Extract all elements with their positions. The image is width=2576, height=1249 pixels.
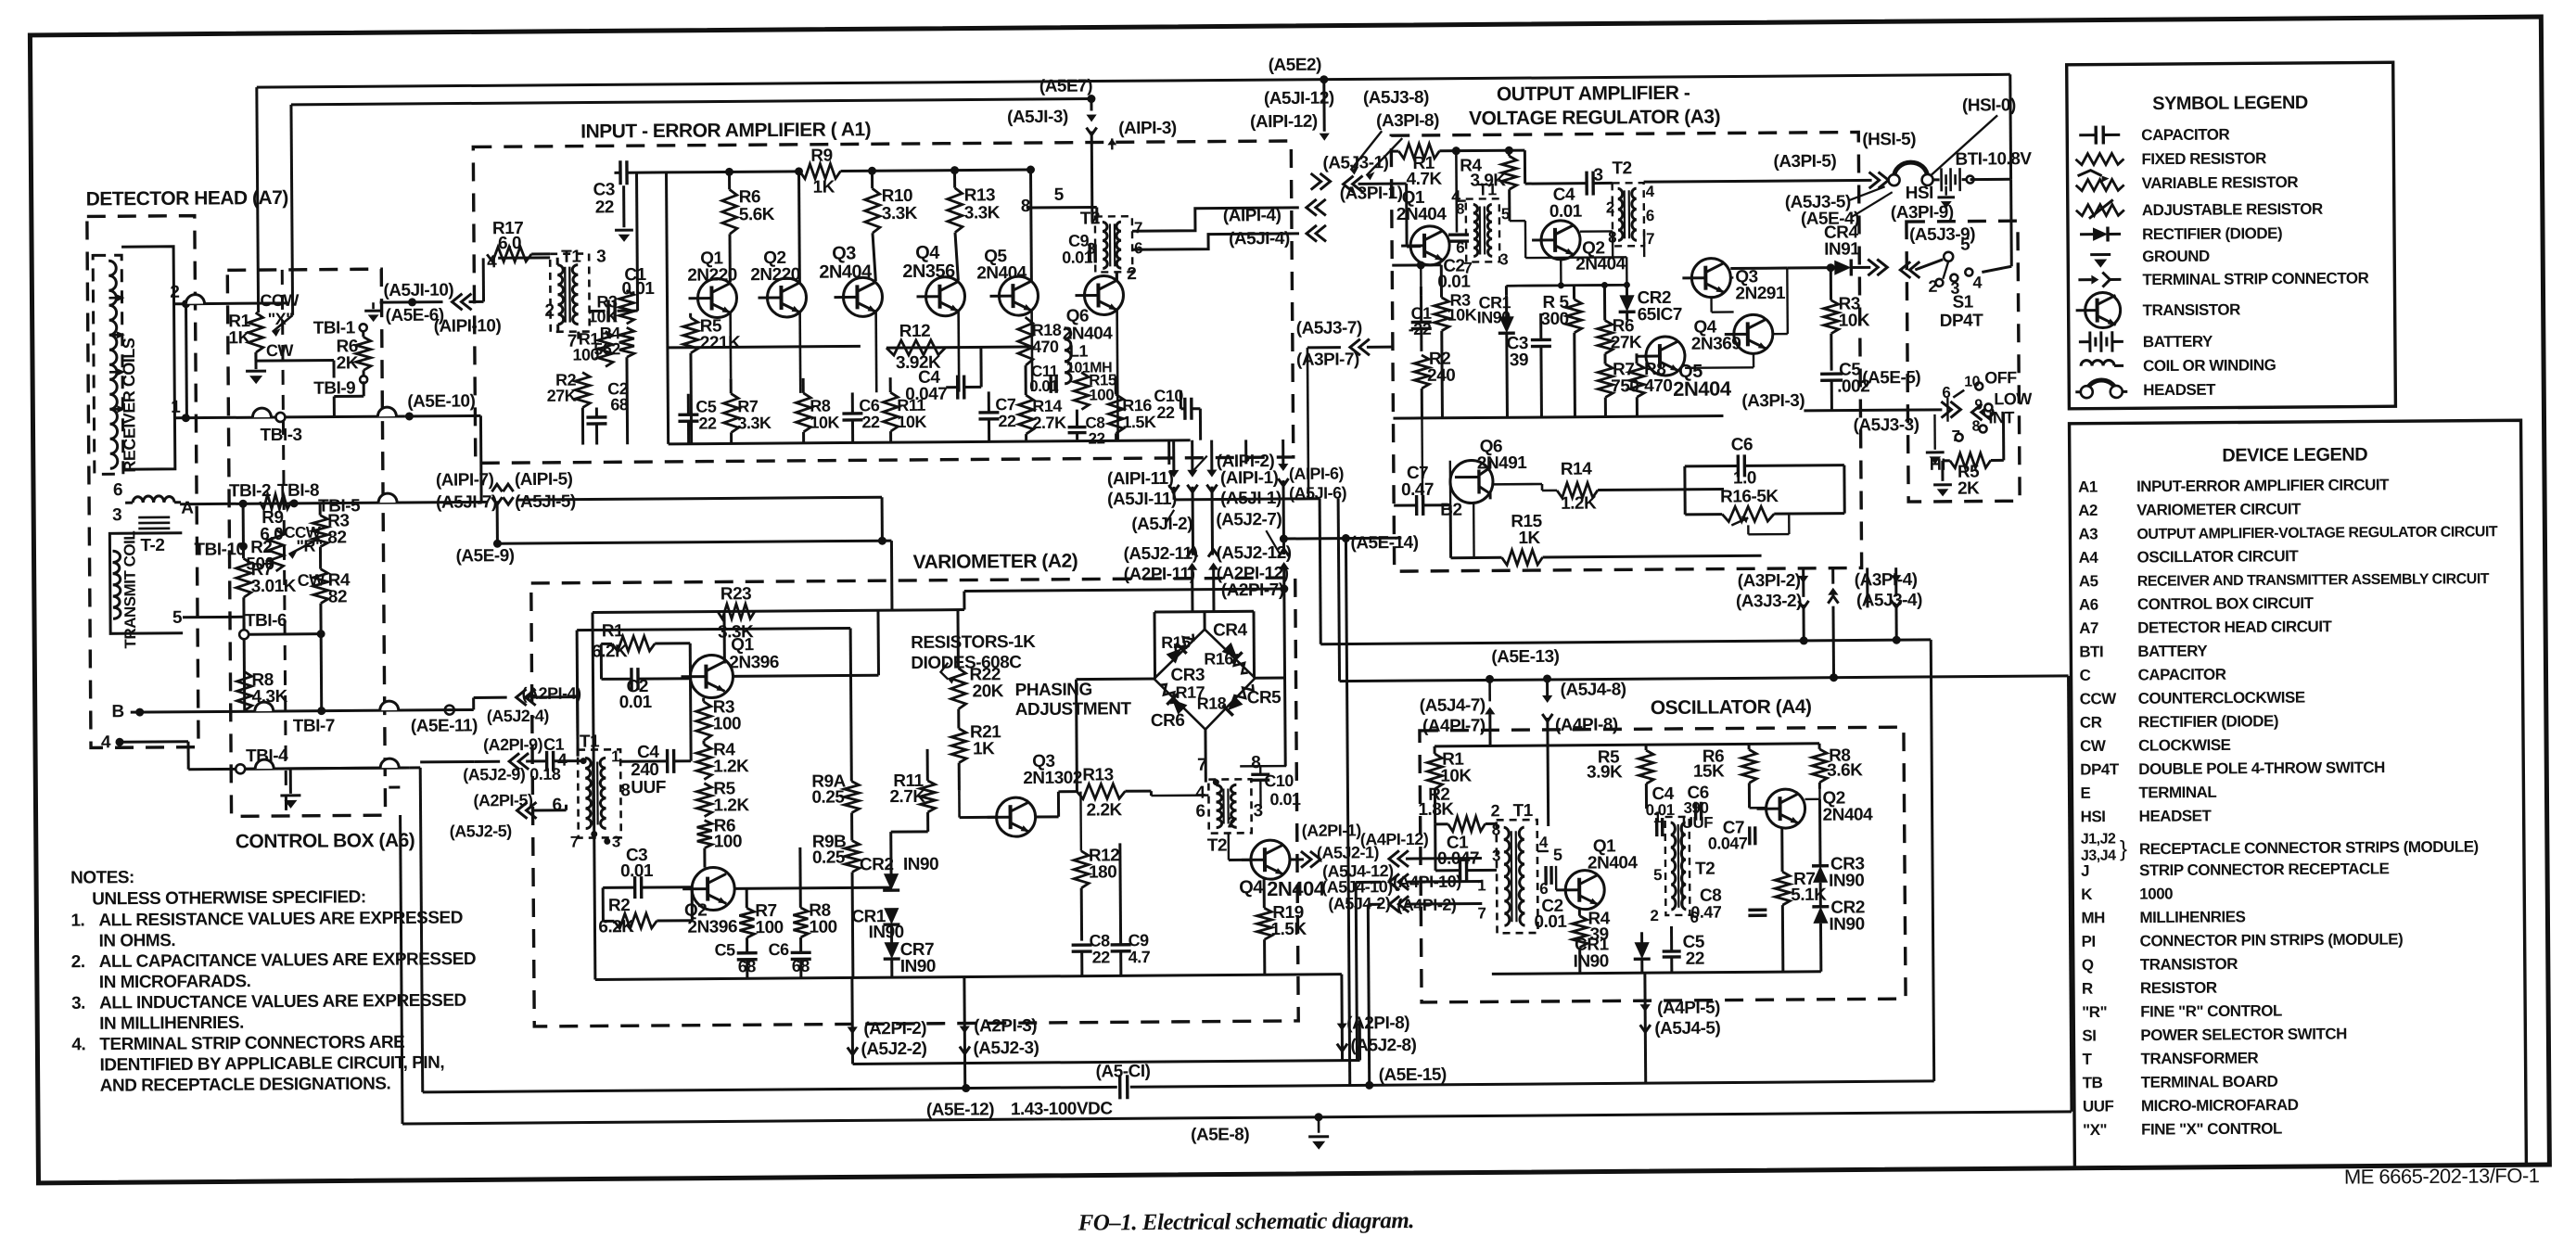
svg-text:A3: A3 [2078, 525, 2098, 542]
receiver coils winding [108, 261, 118, 468]
svg-text:ALL RESISTANCE VALUES ARE EXPR: ALL RESISTANCE VALUES ARE EXPRESSED [98, 909, 463, 931]
svg-text:HSI: HSI [1906, 184, 1934, 203]
resistor R8 100 A2 [793, 908, 808, 937]
svg-text:(A3J3-2): (A3J3-2) [1736, 592, 1802, 612]
svg-text:2N404: 2N404 [1673, 376, 1732, 400]
svg-text:(A5J3-7): (A5J3-7) [1296, 318, 1362, 338]
svg-text:(AIPI-5): (AIPI-5) [515, 470, 573, 490]
coil tap [108, 297, 121, 300]
resistor R8 10K [796, 393, 810, 432]
svg-text:20K: 20K [973, 682, 1004, 701]
transistor Q4 2N404 A2 [1242, 840, 1290, 879]
transistor Q5 2N404 A3 [1637, 337, 1685, 376]
svg-text:STRIP CONNECTOR RECEPTACLE: STRIP CONNECTOR RECEPTACLE [2139, 860, 2390, 879]
fork arrow up col [1208, 550, 1218, 557]
inductor L1 101MH [1065, 328, 1071, 384]
ground S1 left [1933, 414, 1936, 450]
wire B bus [131, 710, 446, 712]
resistor R7 100 A2 [739, 908, 754, 937]
svg-text:MH: MH [2081, 909, 2105, 926]
svg-text:27K: 27K [547, 387, 577, 405]
svg-text:10: 10 [1964, 375, 1981, 390]
svg-text:2.: 2. [71, 952, 85, 972]
svg-text:7: 7 [570, 834, 579, 851]
svg-text:T2: T2 [1207, 835, 1227, 855]
capacitor C6 68 [791, 951, 811, 955]
svg-text:8: 8 [1456, 202, 1464, 218]
svg-text:DEVICE LEGEND: DEVICE LEGEND [2222, 444, 2367, 465]
resistor R12 3.92K [886, 340, 946, 355]
svg-text:5: 5 [1653, 866, 1662, 884]
svg-text:240: 240 [631, 760, 658, 780]
svg-text:VARIOMETER (A2): VARIOMETER (A2) [913, 551, 1078, 573]
svg-text:(A4PI-5): (A4PI-5) [1657, 999, 1720, 1018]
svg-text:R9: R9 [810, 147, 832, 166]
svg-text:4: 4 [101, 733, 111, 752]
svg-text:(AIPI-11): (AIPI-11) [1107, 469, 1174, 490]
transistor Q2 2N404 A4 [1756, 789, 1804, 828]
svg-text:Q1: Q1 [731, 635, 754, 655]
svg-text:IN90: IN90 [900, 957, 936, 976]
svg-text:(A2PI-1): (A2PI-1) [1302, 821, 1362, 839]
A2 top bus [593, 610, 964, 613]
resistor R2 27K [575, 373, 590, 408]
svg-text:2N404: 2N404 [1396, 205, 1447, 224]
svg-text:9: 9 [1974, 398, 1983, 414]
svg-text:2N404: 2N404 [976, 263, 1027, 283]
svg-text:0.47: 0.47 [1690, 903, 1722, 922]
bus A top [257, 74, 2010, 87]
resistor chain R3 100 [696, 702, 711, 741]
svg-text:RESISTORS-1K: RESISTORS-1K [911, 632, 1036, 653]
detector head box A7 [87, 216, 198, 748]
resistor R9B 0.25 [845, 840, 860, 872]
svg-text:UNLESS OTHERWISE SPECIFIED:: UNLESS OTHERWISE SPECIFIED: [92, 887, 366, 909]
wire B A5E-14 [1280, 534, 1288, 542]
headset HSI [1894, 162, 1927, 177]
svg-text:4: 4 [1539, 834, 1549, 851]
svg-text:VARIABLE RESISTOR: VARIABLE RESISTOR [2142, 173, 2299, 192]
svg-text:UUF: UUF [2083, 1097, 2114, 1115]
svg-text:(A5J4-8): (A5J4-8) [1561, 680, 1626, 700]
switch S1 box [1906, 221, 2020, 502]
resistor R7 750 [1598, 363, 1613, 397]
svg-text:6: 6 [1942, 384, 1950, 401]
svg-text:(HSI-5): (HSI-5) [1862, 130, 1916, 149]
svg-text:R18: R18 [1197, 694, 1227, 712]
receiver coils dashed box [93, 255, 123, 474]
wire right edge drops [409, 766, 420, 769]
resistor R8 470 [1629, 363, 1644, 397]
svg-text:CCW: CCW [2080, 690, 2118, 707]
svg-text:2N404: 2N404 [819, 261, 873, 282]
svg-text:BTI-10.8V: BTI-10.8V [1955, 149, 2032, 170]
svg-text:100: 100 [1089, 386, 1114, 403]
svg-text:(AIPI-4): (AIPI-4) [1223, 206, 1282, 225]
svg-text:R16-5K: R16-5K [1720, 487, 1779, 506]
svg-text:1.2K: 1.2K [713, 796, 749, 815]
svg-text:2N396: 2N396 [729, 653, 779, 672]
svg-text:(A5J2-11): (A5J2-11) [1123, 544, 1197, 565]
transistor Q1 2N396 [681, 655, 733, 697]
long vertical right B [2069, 676, 2072, 1112]
svg-text:3.3K: 3.3K [882, 204, 918, 223]
svg-text:INPUT-ERROR AMPLIFIER CIRCUI: INPUT-ERROR AMPLIFIER CIRCUIT [2136, 476, 2390, 495]
variometer box A2 [531, 578, 1298, 1026]
svg-text:A: A [181, 499, 194, 518]
wires A3 upper [1410, 246, 1421, 248]
svg-text:2N220: 2N220 [750, 265, 800, 285]
svg-text:C6: C6 [769, 940, 790, 959]
resistor R6 2K [356, 337, 371, 370]
svg-text:R: R [2082, 980, 2093, 998]
legend coil symbol [2081, 360, 2114, 365]
variable resistor R16 5K [1722, 506, 1774, 521]
svg-text:K: K [2081, 886, 2093, 903]
legend ground symbol [2090, 253, 2111, 256]
svg-text:8: 8 [1251, 753, 1260, 772]
resistor R5 1.2K [696, 784, 711, 817]
capacitor C5 68 [737, 951, 758, 955]
svg-text:(A5J3-8): (A5J3-8) [1363, 88, 1429, 108]
svg-text:(A5J3-3): (A5J3-3) [1853, 415, 1919, 436]
svg-text:100: 100 [714, 832, 742, 851]
ground S1 bottom [1933, 483, 1952, 486]
svg-text:IN90: IN90 [1829, 914, 1864, 934]
transistor Q2 2N404 A3 [1532, 221, 1580, 260]
wire Q1 collector A2 [722, 611, 725, 663]
T2 to AIPI-4 wires [1027, 206, 1097, 210]
receiver coils solid box [121, 247, 175, 469]
svg-text:TBI-7: TBI-7 [293, 717, 335, 736]
svg-text:(A5JI-5): (A5JI-5) [515, 492, 576, 512]
svg-text:(A5-CI): (A5-CI) [1096, 1062, 1151, 1081]
svg-text:0.047: 0.047 [1708, 834, 1748, 852]
svg-text:1K: 1K [973, 739, 995, 758]
svg-text:CONTROL BOX CIRCUIT: CONTROL BOX CIRCUIT [2137, 594, 2315, 613]
svg-text:TBI-10: TBI-10 [194, 540, 245, 559]
resistor R6 5.6K [722, 189, 737, 234]
svg-text:R16: R16 [1204, 649, 1233, 668]
svg-text:(A3PI-7): (A3PI-7) [1296, 350, 1359, 369]
battery ground [1945, 186, 1946, 196]
svg-text:0.01: 0.01 [1269, 790, 1301, 809]
resistor R6 15K [1741, 749, 1756, 783]
svg-text:2N491: 2N491 [1477, 453, 1528, 473]
svg-text:0.01: 0.01 [619, 693, 653, 712]
capacitor C8 22 A2 [1072, 943, 1092, 947]
svg-text:CR2: CR2 [860, 855, 894, 874]
legend adjustable resistor symbol [2076, 204, 2124, 215]
svg-text:(AIPI-10): (AIPI-10) [434, 316, 502, 337]
svg-text:221K: 221K [700, 333, 741, 352]
svg-text:5.6K: 5.6K [739, 205, 775, 224]
resistor R5 2K S1 [1950, 452, 1991, 467]
resistor R19 1.5K [1256, 908, 1271, 939]
svg-text:(A5J2-4): (A5J2-4) [487, 707, 550, 725]
transmit coil winding [112, 551, 121, 618]
svg-text:1: 1 [1653, 809, 1662, 826]
resistor R6 100 A2 [697, 821, 712, 848]
svg-text:T-2: T-2 [140, 536, 164, 555]
resistor R2 240 [1414, 355, 1429, 389]
svg-text:DOUBLE POLE 4-THROW SWITCH: DOUBLE POLE 4-THROW SWITCH [2138, 758, 2385, 778]
svg-text:15K: 15K [1693, 762, 1725, 782]
svg-text:HSI: HSI [2081, 808, 2106, 825]
svg-text:2: 2 [1491, 801, 1500, 820]
svg-text:(A5E-11): (A5E-11) [411, 716, 478, 736]
diode CR3 IN90 [1812, 866, 1829, 883]
svg-text:10K: 10K [1440, 767, 1472, 786]
capacitor C2 0.01 A4 [1544, 866, 1548, 885]
regulator box A3 [1391, 132, 1861, 571]
resistor R13 2.2K [1077, 784, 1125, 798]
svg-text:2: 2 [170, 283, 179, 302]
svg-text:FINE "R" CONTROL: FINE "R" CONTROL [2140, 1002, 2282, 1021]
svg-text:(A5E-5): (A5E-5) [1862, 368, 1920, 388]
svg-text:OFF: OFF [1984, 368, 2017, 387]
svg-text:2N356: 2N356 [902, 261, 955, 282]
svg-text:(A5E2): (A5E2) [1269, 56, 1322, 75]
svg-text:100: 100 [755, 918, 783, 937]
svg-text:4: 4 [1195, 784, 1205, 803]
svg-text:22: 22 [1686, 949, 1704, 969]
svg-text:CAPACITOR: CAPACITOR [2137, 666, 2225, 684]
svg-text:OSCILLATOR (A4): OSCILLATOR (A4) [1651, 696, 1812, 719]
svg-text:C4: C4 [637, 743, 659, 762]
variable resistor R22 20K [950, 669, 965, 709]
svg-text:(A3PI-8): (A3PI-8) [1376, 111, 1439, 131]
coil tap [109, 408, 122, 411]
svg-text:RECEPTACLE CONNECTOR STRIPS: RECEPTACLE CONNECTOR STRIPS (MODULE) [2139, 838, 2479, 859]
svg-text:CR: CR [2080, 714, 2102, 732]
svg-text:(A5E-8): (A5E-8) [1191, 1125, 1249, 1144]
svg-text:R15: R15 [1161, 633, 1191, 652]
svg-text:(A5J2-1): (A5J2-1) [1317, 843, 1380, 861]
svg-text:8: 8 [1971, 419, 1980, 435]
svg-text:INT: INT [1988, 408, 2014, 427]
transistor Q3 2N404 [834, 277, 882, 316]
svg-text:R2: R2 [608, 896, 630, 915]
svg-text:2: 2 [1127, 264, 1136, 284]
svg-text:T2: T2 [1612, 159, 1631, 178]
svg-text:22: 22 [861, 413, 880, 431]
svg-text:1K: 1K [228, 328, 250, 348]
bottom bus 2 A5-CI [423, 1087, 1117, 1091]
resistor R7 3.01K [236, 558, 251, 597]
svg-text:(A5J3-1): (A5J3-1) [1322, 153, 1388, 173]
terminal board inner dashed line [282, 270, 286, 816]
A3 mid bus [1422, 416, 1723, 418]
diode CR2 65IC7 [1619, 295, 1636, 312]
wire A cluster [1174, 499, 1320, 500]
svg-text:(A5JI-4): (A5JI-4) [1229, 229, 1290, 249]
svg-text:6: 6 [113, 480, 122, 500]
svg-text:0.047: 0.047 [1437, 848, 1479, 868]
diode CR2 IN90 A4 [1812, 907, 1829, 924]
svg-text:2N1302: 2N1302 [1023, 769, 1082, 788]
resistor R1 6.2K A2 [612, 636, 655, 651]
svg-text:ALL CAPACITANCE VALUES ARE EXP: ALL CAPACITANCE VALUES ARE EXPRESSED [99, 949, 477, 972]
svg-text:39: 39 [1510, 350, 1528, 370]
svg-text:"R": "R" [2082, 1003, 2107, 1021]
svg-text:(AIPI-7): (AIPI-7) [436, 470, 494, 490]
resistor R4 82 [313, 569, 328, 604]
svg-text:TB: TB [2083, 1074, 2103, 1091]
svg-text:3: 3 [596, 247, 606, 266]
resistor R3 10K right [1824, 300, 1839, 334]
svg-text:1.2K: 1.2K [1561, 494, 1597, 514]
svg-text:NOTES:: NOTES: [70, 868, 134, 888]
svg-text:10K: 10K [897, 413, 926, 431]
svg-text:3.01K: 3.01K [251, 577, 297, 596]
svg-text:0.01: 0.01 [1534, 912, 1567, 932]
wire A5E-9 [496, 501, 499, 543]
svg-text:6: 6 [1646, 207, 1654, 224]
wires connector columns [1172, 440, 1175, 474]
svg-text:(A5J4-2): (A5J4-2) [1328, 894, 1391, 912]
svg-text:FINE "X" CONTROL: FINE "X" CONTROL [2141, 1120, 2282, 1139]
capacitor C2 0.01 A2 [630, 668, 633, 690]
legend rectifier symbol [2080, 233, 2093, 236]
svg-text:1.5K: 1.5K [1122, 413, 1156, 431]
svg-text:T2: T2 [1695, 860, 1715, 879]
control box A6 [227, 269, 385, 816]
resistor R11 10K [883, 392, 898, 431]
variable resistor R1 1K [249, 312, 263, 352]
svg-text:100: 100 [572, 345, 599, 363]
svg-text:0.01: 0.01 [620, 861, 654, 881]
svg-text:(A4PI-8): (A4PI-8) [1555, 715, 1618, 734]
A3 bottom rail [1421, 418, 1423, 505]
legend transistor symbol [2075, 292, 2120, 327]
svg-text:C: C [2079, 667, 2090, 684]
svg-text:82: 82 [328, 587, 347, 606]
svg-text:(A5J2-7): (A5J2-7) [1216, 510, 1282, 530]
resistor R2 6.2K A2 [614, 913, 657, 928]
svg-text:CW: CW [2080, 737, 2107, 755]
svg-text:5: 5 [1960, 236, 1970, 255]
legend headset symbol [2086, 380, 2116, 390]
bus A drop [257, 87, 259, 312]
ground control box [289, 769, 292, 794]
resistor R18 470 [1018, 317, 1033, 365]
capacitor C8 22 [1068, 426, 1087, 429]
svg-text:1: 1 [171, 398, 181, 417]
svg-text:3.6K: 3.6K [1827, 760, 1863, 780]
resistor R15 100 [1074, 373, 1089, 410]
svg-text:BATTERY: BATTERY [2137, 643, 2208, 661]
A4 top bus [1435, 744, 1819, 746]
resistor R16 1.5K [1108, 394, 1123, 433]
svg-text:(AIPI-3): (AIPI-3) [1118, 119, 1177, 138]
svg-text:C6: C6 [1731, 435, 1753, 454]
svg-text:OSCILLATOR CIRCUIT: OSCILLATOR CIRCUIT [2137, 547, 2300, 566]
svg-text:PHASING: PHASING [1015, 681, 1092, 701]
svg-text:(A2PI-9): (A2PI-9) [483, 735, 543, 754]
svg-text:POWER SELECTOR SWITCH: POWER SELECTOR SWITCH [2140, 1025, 2347, 1044]
svg-text:TBI-6: TBI-6 [245, 611, 287, 631]
A1 top bus [667, 172, 800, 172]
svg-text:ME 6665-202-13/FO-1: ME 6665-202-13/FO-1 [2344, 1164, 2540, 1189]
transistor Q2 2N220 [758, 278, 806, 317]
bottom bus 3 [402, 1112, 2072, 1124]
bridge connections [1154, 610, 1254, 614]
svg-text:C5: C5 [715, 940, 736, 959]
svg-text:6: 6 [552, 796, 561, 815]
svg-text:PI: PI [2082, 933, 2096, 950]
svg-text:100: 100 [809, 918, 836, 937]
svg-text:3.3K: 3.3K [964, 203, 1001, 223]
svg-text:TERMINAL STRIP CONNECTORS A: TERMINAL STRIP CONNECTORS ARE [99, 1033, 404, 1054]
svg-text:(A5J4-5): (A5J4-5) [1654, 1019, 1720, 1039]
resistor R3 82 [312, 516, 327, 547]
svg-text:1: 1 [611, 747, 619, 765]
svg-text:RECTIFIER (DIODE): RECTIFIER (DIODE) [2142, 224, 2282, 243]
svg-text:5: 5 [172, 608, 183, 628]
coil tap [109, 371, 122, 374]
svg-text:1K: 1K [1518, 529, 1540, 548]
svg-text:1.43-100VDC: 1.43-100VDC [1011, 1099, 1114, 1119]
svg-text:(A3PI-3): (A3PI-3) [1741, 391, 1804, 411]
svg-text:CCW: CCW [260, 291, 299, 310]
resistor R1 10K A4 [1427, 754, 1442, 789]
resistor R14 1.2K [1557, 483, 1598, 498]
svg-text:22: 22 [998, 412, 1016, 430]
svg-text:2.7K: 2.7K [889, 787, 925, 807]
ground below R1 [254, 352, 257, 369]
svg-text:TRANSMIT COIL: TRANSMIT COIL [121, 531, 139, 649]
svg-text:(A5E-9): (A5E-9) [455, 546, 514, 566]
svg-text:10K: 10K [810, 414, 839, 432]
wire bus line TBI-2 [180, 502, 487, 503]
svg-text:RESISTOR: RESISTOR [2140, 979, 2217, 998]
svg-text:SI: SI [2082, 1026, 2096, 1044]
svg-text:A7: A7 [2079, 619, 2098, 637]
svg-text:6.0: 6.0 [498, 234, 521, 253]
resistor R7 5.1K [1775, 872, 1790, 905]
capacitor C5 .002 [1820, 372, 1843, 376]
svg-text:4: 4 [1972, 274, 1982, 292]
svg-text:TBI-2: TBI-2 [229, 481, 271, 501]
capacitor C5 22 [678, 413, 698, 416]
svg-text:VARIOMETER CIRCUIT: VARIOMETER CIRCUIT [2136, 500, 2302, 518]
svg-text:CONTROL BOX (A6): CONTROL BOX (A6) [236, 830, 415, 852]
transistor Q5 2N404 [989, 276, 1038, 315]
long vertical right A [1931, 640, 1933, 1081]
svg-text:2: 2 [1928, 277, 1937, 296]
resistor R11 2.7K A2 [920, 781, 935, 812]
svg-text:(A3PI-4): (A3PI-4) [1855, 570, 1918, 590]
svg-text:FIXED RESISTOR: FIXED RESISTOR [2141, 149, 2266, 168]
legend terminal strip connector symbol [2078, 278, 2091, 281]
svg-text:(A5E-13): (A5E-13) [1491, 647, 1559, 668]
svg-text:HEADSET: HEADSET [2139, 807, 2213, 825]
svg-text:IN90: IN90 [903, 855, 938, 874]
svg-text:IN90: IN90 [1829, 871, 1864, 890]
transistor Q4 2N356 [916, 277, 964, 316]
svg-text:A5: A5 [2079, 572, 2098, 590]
svg-text:3: 3 [1492, 847, 1500, 864]
svg-text:B: B [111, 702, 123, 721]
capacitor C7 22 [978, 411, 999, 414]
svg-text:UUF: UUF [1682, 814, 1714, 832]
svg-text:S1: S1 [1952, 293, 1973, 312]
svg-text:1000: 1000 [2139, 885, 2173, 902]
svg-text:(A3PI-9): (A3PI-9) [1891, 203, 1954, 223]
svg-text:(A5E-15): (A5E-15) [1379, 1065, 1447, 1086]
connector A2PI-1 wire [1290, 858, 1304, 860]
